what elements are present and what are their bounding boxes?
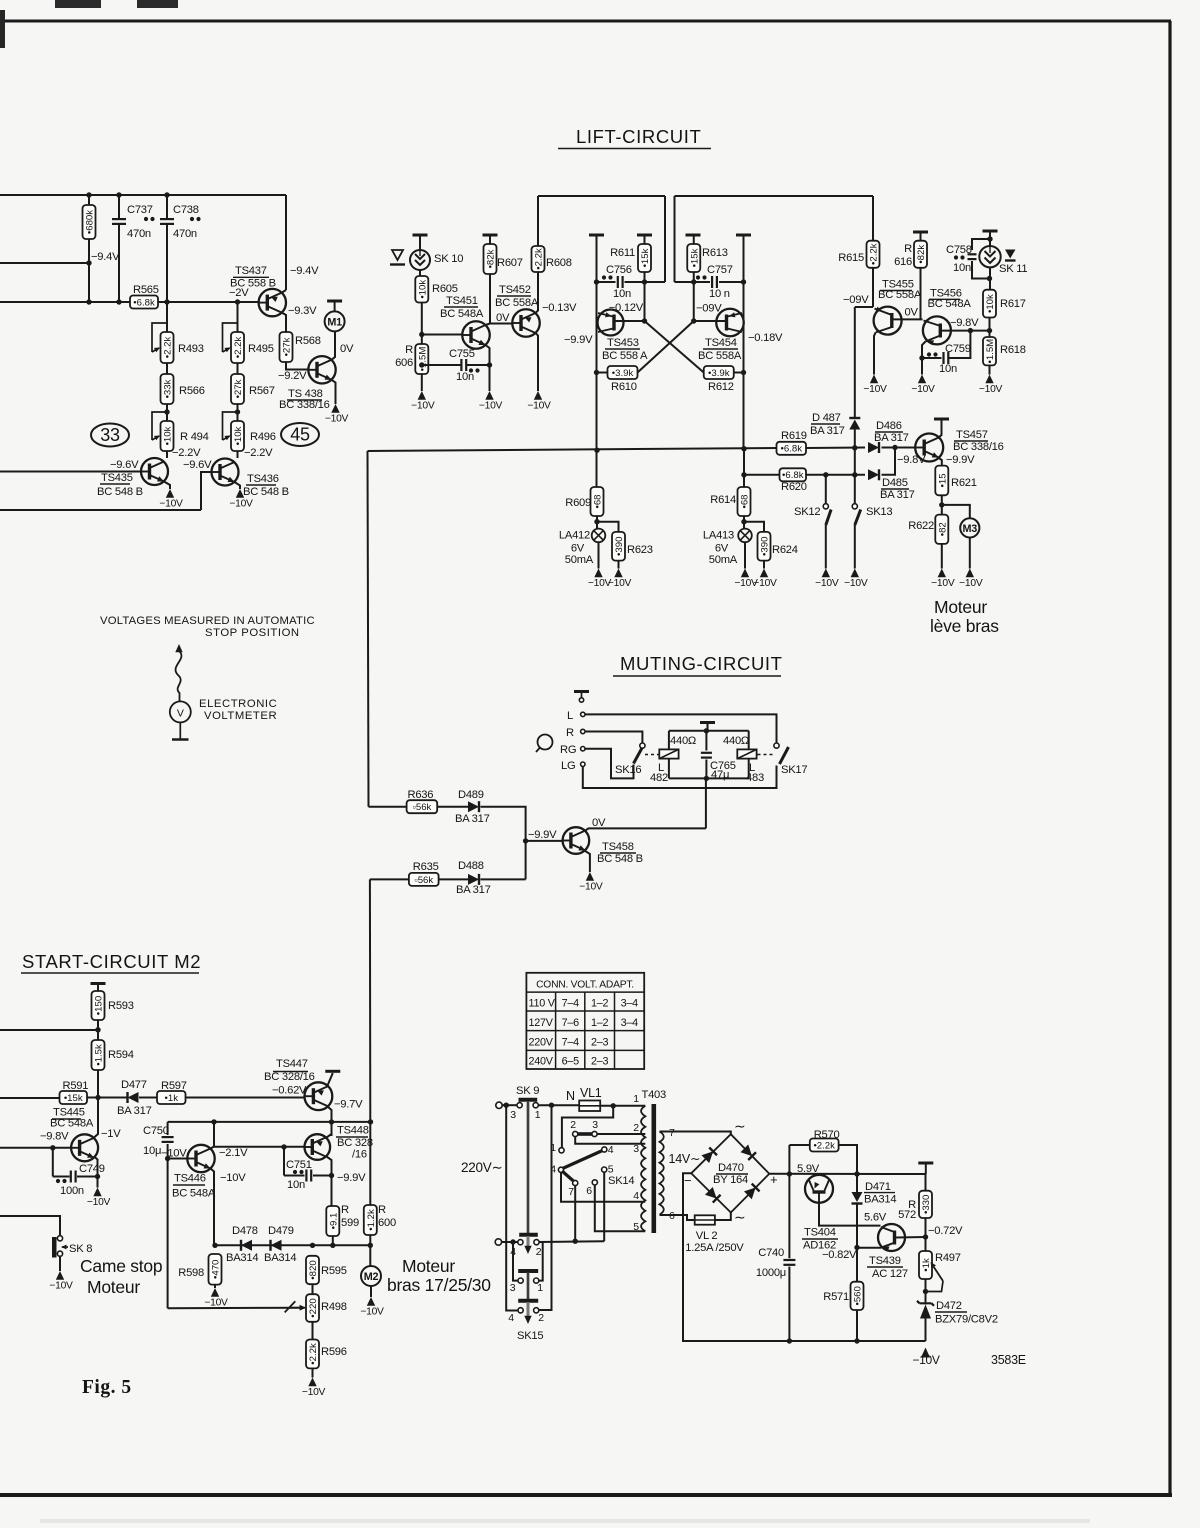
svg-text:R571: R571: [823, 1291, 849, 1303]
svg-text:BZX79/C8V2: BZX79/C8V2: [935, 1314, 998, 1326]
svg-text:R621: R621: [951, 477, 977, 489]
node 33: [91, 424, 129, 447]
ground SK8 -10V: [56, 1271, 64, 1280]
relay loop bottom rail: [669, 777, 749, 779]
ground TS452 collector -10V: [534, 391, 542, 400]
wire TS437 emitter riser: [285, 195, 287, 290]
resistor R610: [608, 366, 638, 379]
wire top bus left: [0, 194, 286, 196]
svg-text:R568: R568: [295, 335, 321, 347]
capacitor C749: [70, 1171, 72, 1183]
node R565/R495 branch: [235, 299, 240, 304]
node C756 row left: [594, 279, 599, 284]
supply T-bar R611: [637, 234, 652, 237]
capacitor C751: [305, 1170, 307, 1182]
svg-text:−10V: −10V: [815, 578, 839, 589]
wire C750 bottom: [167, 1144, 169, 1159]
svg-text:•9.1: •9.1: [328, 1213, 339, 1230]
svg-text:TS457: TS457: [956, 429, 988, 441]
svg-text:▫56k: ▫56k: [414, 875, 433, 886]
svg-text:•2.2k: •2.2k: [534, 248, 545, 270]
svg-text:R 494: R 494: [180, 431, 209, 443]
wire M3 down: [969, 538, 971, 569]
svg-text:0V: 0V: [905, 307, 919, 319]
svg-text:−10V: −10V: [959, 578, 983, 589]
pickup icon: [538, 735, 553, 750]
node top bus / C737: [116, 192, 121, 197]
svg-text:•1k: •1k: [921, 1258, 932, 1272]
svg-text:−10V: −10V: [204, 1298, 228, 1309]
svg-text:Came stop: Came stop: [80, 1256, 162, 1276]
svg-text:−10V: −10V: [844, 578, 868, 589]
ground -10V PSU: [921, 1348, 930, 1358]
wire D487 column: [854, 307, 856, 417]
svg-text:D470: D470: [718, 1162, 744, 1174]
svg-text:SK 10: SK 10: [434, 253, 463, 265]
wire TS439 collector: [896, 1236, 926, 1239]
svg-text:482: 482: [650, 772, 668, 784]
node 45: [281, 423, 319, 446]
svg-text:−9.6V: −9.6V: [183, 459, 212, 471]
svg-text:SK14: SK14: [608, 1175, 634, 1187]
svg-text:VOLTMETER: VOLTMETER: [204, 710, 277, 722]
wire pin6 to VL2: [660, 1215, 695, 1220]
svg-text:1: 1: [537, 1282, 543, 1294]
svg-text:D 487: D 487: [812, 412, 841, 424]
svg-text:−9.8V: −9.8V: [40, 1131, 69, 1143]
node C758 top: [987, 236, 992, 241]
resistor R591: [60, 1091, 88, 1104]
svg-text:BC 338/16: BC 338/16: [953, 441, 1004, 453]
svg-text:D489: D489: [458, 789, 484, 801]
wire TS451 emitter: [486, 345, 490, 391]
svg-text:•2.2k: •2.2k: [813, 1140, 835, 1151]
svg-text:BC 328: BC 328: [337, 1137, 373, 1149]
svg-text:127V: 127V: [529, 1017, 554, 1029]
selector SK14 pivot contact 4: [558, 1167, 563, 1172]
svg-text:−09V: −09V: [696, 303, 722, 315]
chassis symbol near SK10: [392, 250, 403, 260]
selector SK14 contact 6: [592, 1180, 597, 1185]
transistor TS445: [71, 1134, 98, 1161]
wire C738 top: [166, 195, 168, 220]
wire bus2: [675, 195, 874, 197]
svg-text:R565: R565: [133, 284, 159, 296]
svg-text:•82: •82: [937, 522, 948, 536]
node TS451 base: [419, 332, 424, 337]
pot arrow R493: [152, 323, 167, 352]
svg-text:−9.9V: −9.9V: [528, 829, 557, 841]
wire TS458 collector: [585, 828, 706, 831]
wire R593-R594: [97, 1020, 99, 1040]
wire R596 down: [312, 1368, 314, 1377]
svg-text:0V: 0V: [340, 343, 354, 355]
svg-text:R611: R611: [610, 247, 635, 259]
node R571 bottom: [854, 1338, 859, 1343]
wire R598 down: [214, 1285, 216, 1288]
wire R570 wires: [789, 1144, 809, 1146]
ground LA413 -10V: [741, 569, 749, 578]
resistor R566: [161, 374, 174, 404]
pot arrow R494: [152, 412, 167, 440]
svg-text:BA314: BA314: [264, 1252, 296, 1264]
supply T-bar TS454 base: [736, 234, 751, 237]
svg-text:BY 164: BY 164: [713, 1174, 748, 1186]
svg-text:lève bras: lève bras: [930, 616, 999, 636]
svg-text:50mA: 50mA: [565, 554, 594, 566]
wire bottom row to R498: [168, 1307, 303, 1310]
svg-text:−10V: −10V: [325, 414, 349, 425]
svg-text:−9.4V: −9.4V: [290, 265, 319, 277]
svg-text:SK15: SK15: [517, 1330, 543, 1342]
svg-text:3: 3: [633, 1143, 639, 1155]
wire tap jog to contact1: [562, 1106, 613, 1148]
svg-text:VL 2: VL 2: [696, 1230, 718, 1242]
svg-text:R609: R609: [565, 497, 591, 509]
wire R613 stem: [693, 235, 695, 244]
transistor TS447: [305, 1082, 333, 1110]
selector SK14 blade lower: [562, 1171, 574, 1182]
wire R566-R494: [166, 404, 168, 421]
node -0.72V: [923, 1234, 928, 1239]
node D471 top: [854, 1171, 859, 1176]
wire R571 down: [856, 1310, 858, 1341]
wire left rail: [506, 1105, 518, 1310]
svg-text:SK12: SK12: [794, 506, 820, 518]
selector SK14 contact 4 top: [602, 1147, 607, 1152]
ground R598 -10V: [211, 1288, 219, 1297]
svg-text:6: 6: [586, 1185, 592, 1197]
muting T-bar: [574, 690, 589, 693]
svg-text:10n: 10n: [456, 371, 474, 383]
wire C756 row a: [597, 281, 616, 283]
supply T-bar SK11: [983, 230, 998, 233]
node R611/C756: [642, 279, 647, 284]
svg-text:D479: D479: [268, 1225, 294, 1237]
svg-text:STOP POSITION: STOP POSITION: [205, 627, 300, 639]
capacitor C758: [968, 253, 977, 255]
svg-text:•27k: •27k: [233, 379, 244, 398]
svg-text:−10V: −10V: [608, 578, 632, 589]
wire right rail: [538, 1105, 551, 1310]
wire SK11 to R617: [989, 267, 991, 289]
svg-text:6V: 6V: [715, 543, 729, 555]
wire LA412 down: [598, 542, 600, 568]
wire R611 down: [644, 272, 646, 321]
pot arrow R498: [285, 1301, 296, 1312]
wire -0.9V stub: [855, 306, 873, 308]
wire C755 link: [422, 364, 461, 366]
bridge diode bottom-right: [744, 1184, 760, 1200]
svg-text:•6.8k: •6.8k: [782, 470, 804, 481]
svg-text:BA 317: BA 317: [455, 813, 490, 825]
svg-text:10n: 10n: [953, 262, 971, 274]
supply T-bar R613: [686, 234, 701, 237]
node R617/R618: [987, 328, 992, 333]
node inner-left hook: [510, 1239, 515, 1244]
wire 680k top: [88, 195, 90, 205]
svg-text:CONN. VOLT. ADAPT.: CONN. VOLT. ADAPT.: [536, 980, 634, 991]
fuse VL2: [695, 1215, 715, 1224]
wire R595-R498: [312, 1284, 314, 1294]
svg-text:R615: R615: [838, 252, 864, 264]
ground R623 -10V: [614, 569, 622, 578]
svg-text:C758: C758: [946, 244, 972, 256]
wire R636 row: [369, 806, 407, 808]
resistor R614: [738, 487, 751, 516]
wire R618 down: [989, 365, 991, 374]
wire R616 stem: [920, 232, 922, 241]
svg-text:•27k: •27k: [282, 337, 293, 356]
node R610/TS453 base: [594, 370, 599, 375]
node right rail top: [549, 1103, 554, 1108]
wire C740 bottom: [788, 1267, 790, 1341]
ground TS456 emitter -10V: [918, 375, 926, 384]
resistor R570: [810, 1139, 839, 1152]
motor M2: [361, 1266, 381, 1286]
resistor R609: [591, 487, 604, 516]
resistor R596: [306, 1340, 319, 1369]
resistor R497: [919, 1251, 932, 1279]
wire C756 row b: [625, 281, 666, 283]
svg-text:2: 2: [570, 1119, 576, 1131]
svg-text:•1.5M: •1.5M: [417, 347, 428, 372]
wire TS438 emitter: [332, 380, 336, 404]
electronic voltmeter symbol: [175, 644, 182, 652]
wire contact7 down: [574, 1185, 576, 1241]
wire TS457 emitter: [938, 458, 942, 466]
node C749/emitter: [95, 1174, 100, 1179]
wire bus1 drop to C756 row: [664, 196, 666, 282]
wire TS445 base from page edge: [0, 1147, 71, 1149]
svg-text:LA412: LA412: [559, 530, 590, 542]
svg-text:−: −: [684, 1173, 691, 1188]
wire C757 row a: [675, 281, 711, 283]
transistor TS439: [878, 1224, 905, 1251]
svg-text:BC 558A: BC 558A: [698, 350, 742, 362]
wire TS439 emitter to node: [857, 1247, 881, 1249]
supply T-bar R607: [483, 234, 498, 237]
wire L482 branch top: [668, 731, 670, 750]
transistor TS435: [141, 458, 168, 485]
svg-text:−9.2V: −9.2V: [278, 370, 307, 382]
wire R620 to D485: [806, 474, 865, 476]
svg-text:TS458: TS458: [602, 841, 634, 853]
wire contact6 to pin5 row: [595, 1185, 646, 1232]
capacitor C740: [783, 1259, 795, 1261]
svg-text:BA314: BA314: [226, 1252, 258, 1264]
svg-text:−10V: −10V: [229, 499, 253, 510]
motor M1: [325, 311, 345, 331]
svg-text:−2.1V: −2.1V: [219, 1147, 248, 1159]
svg-text:−0.12V: −0.12V: [609, 302, 644, 314]
wire contact5 down: [603, 1172, 605, 1241]
wire TS446 collector row: [214, 1146, 305, 1148]
svg-text:R619: R619: [781, 430, 807, 442]
wire TS446 base: [168, 1158, 188, 1160]
wire RG to SK16 pivot: [585, 749, 634, 779]
supply T-bar M1: [327, 300, 342, 303]
wire contact2 to pin3 row: [575, 1136, 645, 1143]
wire R615 to TS455: [872, 268, 874, 307]
svg-text:TS448: TS448: [337, 1125, 369, 1137]
resistor R595: [306, 1256, 319, 1284]
svg-text:M3: M3: [963, 523, 978, 535]
arrow symbol SK11: [1005, 250, 1016, 259]
wire SK8 feed: [0, 1216, 60, 1236]
svg-text:•3.9k: •3.9k: [612, 368, 634, 379]
node left rail top: [504, 1103, 509, 1108]
muting T-bar stem and contact: [581, 692, 583, 698]
resistor R635: [409, 873, 439, 886]
svg-text:•390: •390: [614, 537, 625, 556]
svg-text:−10V: −10V: [931, 578, 955, 589]
svg-text:•1.5M: •1.5M: [985, 339, 996, 364]
svg-text:•220: •220: [308, 1298, 319, 1317]
wire R621 down: [941, 495, 943, 514]
wire M1 T-bar stem: [334, 301, 336, 311]
wire R609-LA412: [596, 516, 598, 529]
wire minus rail: [683, 1173, 926, 1341]
jumper bar 2-3: [578, 1132, 593, 1136]
bridge diode top-right: [740, 1144, 756, 1160]
lamp LA413: [738, 529, 752, 543]
wire collector to R617 node: [970, 330, 989, 332]
wire R600 bottom: [369, 1235, 371, 1245]
svg-text:C755: C755: [449, 348, 475, 360]
svg-text:•560: •560: [853, 1286, 864, 1305]
wire LA413 column: [743, 449, 745, 487]
wire TS451 base: [422, 334, 463, 336]
wire R636 to D489: [437, 806, 468, 808]
svg-text:−0.62V: −0.62V: [272, 1084, 307, 1096]
svg-text:R620: R620: [781, 481, 807, 493]
wire D471 top lead: [856, 1174, 858, 1192]
wire SK9 right to VL1: [538, 1104, 579, 1106]
resistor R622: [935, 515, 948, 544]
resistor R597: [157, 1091, 186, 1104]
node R623 tap: [594, 519, 599, 524]
svg-text:BA 317: BA 317: [880, 489, 915, 501]
wire R635 to D488: [439, 878, 468, 880]
mains terminal upper: [496, 1102, 502, 1108]
pot arrow R496: [223, 412, 238, 440]
svg-text:R623: R623: [627, 544, 653, 556]
svg-text:10n: 10n: [613, 288, 631, 300]
wire R611 stem: [644, 235, 646, 244]
svg-text:100n: 100n: [60, 1185, 84, 1197]
ground TS436 emitter -10V: [236, 489, 244, 498]
svg-text:LG: LG: [561, 760, 575, 772]
resistor R618: [983, 337, 996, 365]
node R565/C738: [164, 299, 169, 304]
node C755 base side: [419, 362, 424, 367]
relay coil L483: [737, 749, 756, 758]
svg-text:bras 17/25/30: bras 17/25/30: [387, 1275, 491, 1295]
wire TS437 emitter: [282, 290, 286, 293]
wire TS435 base: [0, 471, 141, 473]
transistor TS437: [259, 289, 286, 316]
wire L483 branch bottom: [748, 759, 750, 779]
pot arrow R497: [932, 1264, 944, 1282]
svg-text:BA 317: BA 317: [810, 425, 845, 437]
svg-text:−2V: −2V: [229, 287, 249, 299]
wire R498-R596: [312, 1322, 314, 1340]
node TS457 base/D485 riser: [892, 445, 897, 450]
svg-text:•470: •470: [211, 1260, 222, 1279]
ground TS445 -10V: [93, 1188, 101, 1197]
svg-text:R598: R598: [178, 1267, 204, 1279]
svg-text:R: R: [378, 1204, 386, 1216]
wire R619 to D486: [806, 447, 865, 450]
switch SK16: [640, 743, 645, 748]
node contact7/SK9 row: [573, 1239, 578, 1244]
wire D487 to rows: [854, 430, 856, 505]
node R591/R594/TS445: [95, 1095, 100, 1100]
svg-text:D486: D486: [876, 420, 902, 432]
svg-text:−9.4V: −9.4V: [91, 251, 120, 263]
resistor R612: [704, 366, 734, 379]
svg-text:R617: R617: [1000, 298, 1026, 310]
wire C765 top: [705, 731, 707, 751]
svg-text:0V: 0V: [592, 817, 606, 829]
svg-text:−10V: −10V: [220, 1172, 246, 1184]
svg-text:BC 338/16: BC 338/16: [279, 399, 330, 411]
svg-text:TS452: TS452: [499, 284, 531, 296]
svg-text:7: 7: [669, 1127, 675, 1139]
supply T-bar R593: [91, 982, 106, 985]
diode D485: [868, 469, 879, 480]
node bus/LA412 column: [594, 448, 599, 453]
wire C737 top: [118, 195, 120, 220]
supply T-bar TS453 base: [589, 234, 604, 237]
wire C737 bottom: [118, 224, 120, 302]
resistor R600: [364, 1205, 377, 1235]
svg-text:BC 558 A: BC 558 A: [602, 350, 648, 362]
svg-text:R624: R624: [772, 544, 798, 556]
svg-text:R594: R594: [108, 1049, 134, 1061]
wire R624 down: [763, 561, 765, 569]
svg-text:R614: R614: [710, 494, 736, 506]
svg-text:−10V: −10V: [159, 499, 183, 510]
wire R594 down: [97, 1070, 99, 1098]
node C759 left: [919, 355, 924, 360]
svg-text:TS436: TS436: [247, 473, 279, 485]
node R624 tap: [741, 519, 746, 524]
svg-text:D471: D471: [865, 1181, 891, 1193]
wire R613 down: [693, 272, 695, 321]
capacitor C756: [617, 276, 619, 288]
svg-text:VOLTAGES MEASURED IN AUTOMATIC: VOLTAGES MEASURED IN AUTOMATIC: [100, 615, 315, 627]
wire TS436 emitter stub: [235, 482, 241, 489]
svg-text:N: N: [566, 1089, 575, 1103]
capacitor C750: [162, 1136, 174, 1138]
wire diode row 1245: [214, 1244, 371, 1246]
svg-text:470n: 470n: [127, 228, 151, 240]
wire D472 to rail: [925, 1319, 927, 1342]
node -0.82V: [854, 1245, 859, 1250]
svg-text:6V: 6V: [571, 543, 585, 555]
resistor R495: [231, 332, 244, 363]
wire bus1: [538, 195, 665, 197]
wire VL1 to T403 pin1: [600, 1105, 645, 1107]
svg-text:1–2: 1–2: [591, 998, 609, 1010]
svg-text:220V∼: 220V∼: [461, 1160, 503, 1175]
bridge rectifier D470 diamond: [691, 1134, 769, 1212]
svg-text:R593: R593: [108, 1000, 134, 1012]
node R497 wiper: [923, 1289, 928, 1294]
diode D489: [468, 801, 479, 812]
